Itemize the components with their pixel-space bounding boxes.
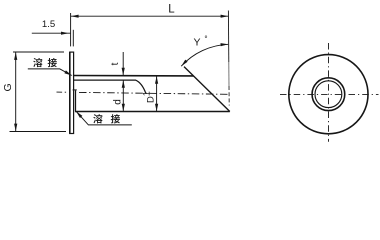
- svg-text:L: L: [168, 4, 175, 16]
- svg-text:G: G: [2, 83, 14, 91]
- svg-text:Y: Y: [193, 37, 200, 49]
- weld label top kanji yousetsu: [33, 58, 42, 67]
- weld label top leader line: [28, 69, 72, 76]
- flange plate left face (bold): [69, 52, 71, 133]
- right view vertical centerline: [328, 43, 330, 142]
- svg-text:°: °: [204, 35, 207, 44]
- svg-text:1.5: 1.5: [42, 19, 55, 30]
- angle Y dimension arc: [181, 44, 228, 66]
- L right arrowhead: [221, 15, 229, 18]
- L left arrowhead: [71, 15, 79, 18]
- flange plate: [70, 52, 74, 133]
- svg-text:d: d: [113, 99, 124, 105]
- centerline left segment: [57, 91, 68, 93]
- arc left arrowhead: [181, 60, 187, 67]
- svg-text:D1: D1: [141, 91, 156, 103]
- D1 arrowhead down: [155, 104, 158, 112]
- extension line right (lower dashed): [228, 86, 230, 106]
- extension line right (middle faint): [228, 62, 230, 86]
- t arrowhead down: [122, 68, 125, 76]
- 1.5 arrowhead: [61, 32, 69, 35]
- weld label bottom kanji yousetsu: [93, 114, 102, 123]
- wire: pipe top inner bore line with curve to centerline: [74, 80, 146, 93]
- weld label bottom leader line: [76, 111, 132, 125]
- weld bead line along plate face: [75, 90, 77, 111]
- dimension d stem: [122, 80, 124, 111]
- G top arrowhead: [14, 52, 17, 60]
- weld top leader arrowhead: [64, 70, 71, 75]
- weld bead top tick: [73, 89, 77, 91]
- right view: flange outer circle: [289, 55, 368, 134]
- dimension D1 stem: [156, 76, 158, 111]
- extension line: plate right face: [72, 30, 74, 47]
- dimension G line: [15, 52, 17, 131]
- d arrowhead up (at bore line): [122, 80, 125, 88]
- right view horizontal centerline: [280, 93, 379, 95]
- extension line G bottom: [10, 131, 67, 133]
- dimension L line: [71, 15, 228, 17]
- D1 arrowhead up: [155, 76, 158, 84]
- dimension 1.5 line: [32, 32, 71, 34]
- centerline right segment: [79, 92, 229, 94]
- dimension t stem: [122, 52, 124, 75]
- weld bottom leader arrowhead: [76, 111, 82, 118]
- extension line G top: [13, 51, 64, 53]
- right view: pipe inner circle: [315, 81, 342, 108]
- G bottom arrowhead: [14, 124, 17, 132]
- right view: pipe outer circle: [312, 78, 345, 111]
- extension line right (upper solid): [227, 11, 229, 63]
- arc right arrowhead: [221, 43, 229, 46]
- wire: pipe top outer line: [73, 75, 194, 77]
- extension line: plate left face: [70, 13, 72, 46]
- svg-text:t: t: [110, 62, 121, 65]
- d arrowhead down (at bottom line): [122, 104, 125, 112]
- wire: pipe bottom outer line: [75, 111, 230, 113]
- wire: mitre slant cut line: [184, 67, 230, 112]
